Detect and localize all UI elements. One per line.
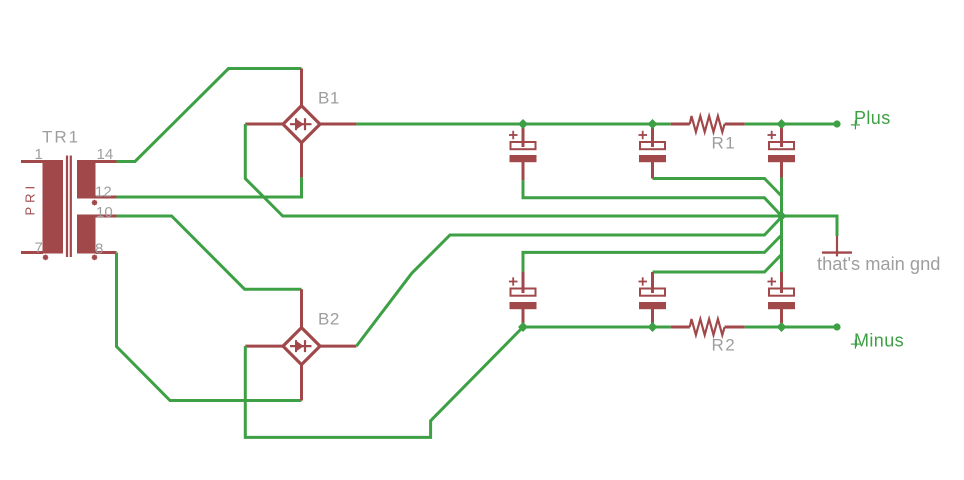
wire C4 top to gnd fan (523, 235, 782, 272)
svg-text:S2: S2 (82, 169, 97, 185)
capacitor C6 (bottom row right) (768, 272, 796, 327)
svg-text:12: 12 (95, 184, 112, 201)
junction bottom rail at C4 (518, 322, 528, 332)
wire bottom rail left part (523, 326, 671, 329)
label Plus (851, 108, 891, 129)
svg-text:14: 14 (97, 146, 114, 163)
label Minus (851, 330, 904, 350)
transformer TR1 (21, 128, 117, 261)
capacitor C2 (top row middle) (639, 124, 667, 179)
wire pin8 to B2 AC2 (117, 253, 302, 401)
capacitor C1 (top row left) (509, 124, 537, 180)
wire B1 plus output top rail left part (356, 123, 670, 126)
transformer core (67, 156, 71, 258)
svg-text:R2: R2 (712, 336, 737, 355)
capacitor C4 (bottom row left) (509, 272, 537, 327)
wire C2 bottom to gnd fan (653, 179, 782, 197)
capacitor C5 (bottom row middle) (639, 272, 667, 327)
svg-text:R1: R1 (712, 134, 737, 153)
junction top rail at C3 (777, 119, 787, 129)
svg-text:S1: S1 (82, 221, 97, 237)
wire B2 plus output to gnd fan (356, 217, 781, 346)
pin 10 (96, 204, 117, 221)
svg-text:B2: B2 (318, 310, 340, 329)
junction top rail at C2 (648, 119, 658, 129)
wire B1 minus output to main gnd node (245, 124, 837, 236)
pin 12 (95, 184, 117, 201)
wire pin10 to B2 AC1 (117, 216, 302, 289)
svg-text:Minus: Minus (854, 330, 904, 350)
wire top rail right part to Plus (745, 123, 837, 126)
wire bottom rail right part to Minus (745, 326, 837, 329)
winding polarity dots (42, 199, 97, 260)
svg-text:10: 10 (96, 204, 113, 221)
pin 14 (96, 146, 117, 163)
node Minus wire end dot (833, 323, 840, 330)
svg-text:7: 7 (35, 240, 43, 257)
primary winding PRI (23, 160, 64, 254)
bridge rectifier B2 (245, 289, 356, 400)
junction top rail at C1 (518, 119, 528, 129)
wire B2 minus output to bottom rail (245, 327, 523, 437)
node Plus wire end dot (833, 120, 840, 127)
secondary winding S1 (77, 215, 97, 254)
pin 7 (21, 240, 43, 257)
svg-text:TR1: TR1 (42, 128, 80, 147)
capacitor C3 (top row right) (768, 124, 796, 178)
junction bottom rail at C6 (777, 322, 787, 332)
resistor R1 (671, 116, 745, 153)
wire C1 bottom to gnd fan (523, 180, 782, 216)
secondary winding S2 (77, 160, 97, 199)
wire gnd fan vertical (780, 178, 783, 273)
svg-text:8: 8 (95, 241, 103, 258)
ground symbol (822, 236, 852, 256)
svg-text:B1: B1 (318, 89, 340, 108)
svg-text:that's main gnd: that's main gnd (817, 253, 940, 274)
svg-text:PRI: PRI (23, 182, 38, 216)
wire C5 top to gnd fan (653, 255, 782, 273)
svg-text:Plus: Plus (854, 108, 891, 128)
wire pin12 to B1 AC2 (117, 177, 302, 197)
node main gnd junction (777, 211, 787, 221)
pin 1 (21, 146, 43, 163)
junction bottom rail at C5 (648, 322, 658, 332)
resistor R2 (671, 319, 745, 355)
svg-text:1: 1 (35, 146, 43, 163)
pin 8 (95, 241, 117, 258)
bridge rectifier B1 (245, 69, 356, 178)
wire pin14 to B1 AC1 (117, 69, 302, 162)
